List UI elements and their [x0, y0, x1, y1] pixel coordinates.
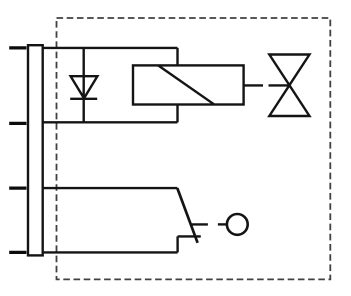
wire top rail [43, 47, 178, 49]
switch S1 fixed contact [178, 235, 201, 237]
enclosure dashed boundary [57, 18, 331, 279]
wire second rail [43, 121, 178, 123]
wire switch lower [43, 251, 178, 253]
terminal pin 2 [9, 122, 26, 125]
terminal pin 4 [9, 251, 26, 254]
wire coil feed lower [176, 105, 178, 123]
mechanical link switch to lamp [190, 223, 226, 225]
terminal pin 3 [9, 186, 26, 189]
switch S1 blade [177, 188, 197, 243]
valve Y1 [269, 55, 309, 117]
solenoid coil K1 [133, 65, 244, 104]
wire coil feed upper [176, 48, 178, 66]
diode V1 [70, 76, 97, 99]
connector terminal strip [28, 45, 43, 255]
mechanical link coil to valve [244, 84, 290, 86]
indicator lamp H1 [227, 214, 248, 235]
wire switch upper [43, 187, 178, 189]
wire contact riser [176, 236, 178, 252]
wire diode branch [82, 48, 84, 122]
terminal pin 1 [9, 46, 26, 49]
